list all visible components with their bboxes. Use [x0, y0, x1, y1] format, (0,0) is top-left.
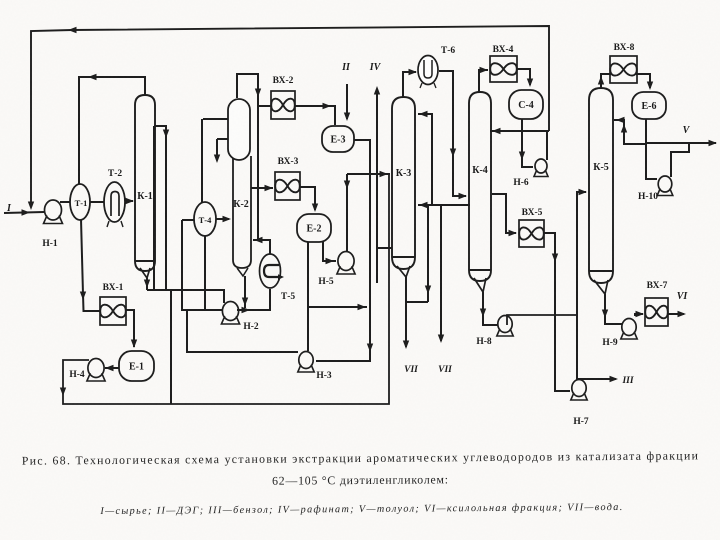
svg-text:62—105 °С диэтиленгликолем:: 62—105 °С диэтиленгликолем:: [272, 472, 448, 487]
